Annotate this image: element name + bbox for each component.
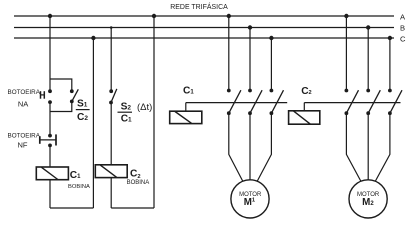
wire branch1 drop from A xyxy=(49,16,51,90)
wire NA to NF xyxy=(49,102,51,135)
svg-text:REDE TRIFÁSICA: REDE TRIFÁSICA xyxy=(170,2,228,11)
svg-text:NF: NF xyxy=(18,141,28,150)
junction on A for M2 phase 1 xyxy=(344,14,348,18)
contactor C2 box xyxy=(289,111,320,124)
junction on A for branch2 return xyxy=(152,14,156,18)
bus wire B xyxy=(14,27,394,29)
wire M2 phase2 drop xyxy=(367,28,369,91)
contact C1 pole 2 xyxy=(248,89,262,116)
junction on B for M2 phase 2 xyxy=(366,25,370,29)
wire M1 phase2 to motor xyxy=(249,113,251,180)
wire M1 phase1 to motor xyxy=(229,113,243,181)
contact C2 pole 2 xyxy=(366,89,380,116)
svg-text:C: C xyxy=(400,34,406,43)
wire C1 box stub xyxy=(185,103,187,112)
fraction bar S1/C2 xyxy=(76,109,90,111)
contact C1 pole 1 xyxy=(227,89,241,116)
svg-text:C1: C1 xyxy=(183,86,194,97)
svg-text:M2: M2 xyxy=(362,197,374,208)
wire branch2 drop from B xyxy=(110,28,112,91)
label C1 coil xyxy=(68,170,90,190)
junction on C for branch1 return xyxy=(91,36,95,40)
contact S2 (timed, of C1) xyxy=(109,89,117,105)
motor M2 xyxy=(349,180,387,218)
svg-text:BOTOEIRA: BOTOEIRA xyxy=(8,133,41,140)
contact C2 pole 3 xyxy=(388,89,402,116)
motor M1 xyxy=(231,180,269,218)
svg-text:C2: C2 xyxy=(301,86,311,97)
wire bottom rail branch2 xyxy=(111,207,154,209)
bus wire A xyxy=(14,15,394,17)
pushbutton NF (S3 stop) xyxy=(40,134,56,148)
wire bottom rail branch1 xyxy=(50,207,93,209)
wire M2 phase1 to motor xyxy=(346,113,361,181)
contact C1 pole 3 xyxy=(270,89,284,116)
svg-text:A: A xyxy=(400,12,406,21)
svg-text:C2: C2 xyxy=(77,112,88,123)
svg-text:C1: C1 xyxy=(70,170,81,181)
junction on B for M1 phase 2 xyxy=(248,25,252,29)
junction on A for M1 phase 1 xyxy=(227,14,231,18)
svg-text:BOBINA: BOBINA xyxy=(127,180,150,186)
svg-text:M1: M1 xyxy=(244,197,256,208)
bus wire C xyxy=(14,37,394,39)
wire M1 phase3 drop xyxy=(270,38,272,91)
svg-text:NA: NA xyxy=(18,100,28,109)
wire tee upper to S1 branch xyxy=(50,79,72,90)
junction on C for M1 phase 3 xyxy=(269,36,273,40)
contactor C1 box xyxy=(170,111,202,123)
wire S1 to lower tee xyxy=(50,101,72,111)
fraction bar S2/C1 xyxy=(118,111,133,113)
wire NF to coil C1 xyxy=(49,145,51,167)
coil C2 (bobina) xyxy=(95,165,127,178)
pushbutton NA (S0 start) xyxy=(41,89,52,104)
svg-text:(Δt): (Δt) xyxy=(137,102,152,113)
wire C2 mechanical link xyxy=(304,102,400,104)
wire M1 phase3 to motor xyxy=(257,113,271,181)
svg-text:BOTOEIRA: BOTOEIRA xyxy=(8,89,41,96)
svg-text:C1: C1 xyxy=(121,114,132,125)
wire M2 phase3 to motor xyxy=(375,113,390,181)
wire S2 to coil C2 xyxy=(110,103,112,165)
junction on A for control branch 1 xyxy=(48,14,52,18)
wire return riser to bus C xyxy=(92,38,94,208)
wire M1 phase2 drop xyxy=(249,28,251,91)
wire C1 mechanical link xyxy=(186,102,287,104)
label BOTOEIRA NA xyxy=(8,89,41,108)
wire coil C1 to bottom rail xyxy=(49,180,51,208)
coil C1 (bobina) xyxy=(36,167,68,180)
label BOTOEIRA NF xyxy=(8,133,41,150)
wire return riser to bus A xyxy=(153,16,155,208)
contact S1 (seal-in, of C2) xyxy=(70,89,78,103)
svg-text:C2: C2 xyxy=(130,169,141,181)
label S1/C2 xyxy=(77,99,88,123)
junction on B for control branch 2 xyxy=(110,26,113,29)
svg-text:BOBINA: BOBINA xyxy=(68,184,90,190)
wire C2 box stub xyxy=(303,103,305,111)
contact C2 pole 1 xyxy=(345,89,359,116)
wire M2 phase2 to motor xyxy=(367,113,369,180)
junction on C for M2 phase 3 xyxy=(388,36,392,40)
wire M1 phase1 drop xyxy=(228,16,230,91)
svg-text:S1: S1 xyxy=(77,99,88,110)
svg-text:B: B xyxy=(400,23,405,32)
wire M2 phase1 drop xyxy=(345,16,347,91)
svg-text:S2: S2 xyxy=(121,102,132,113)
label C2 coil xyxy=(127,169,150,187)
wire coil C2 to bottom rail xyxy=(110,178,112,208)
label S2/C1 xyxy=(121,102,132,125)
wire M2 phase3 drop xyxy=(389,38,391,91)
